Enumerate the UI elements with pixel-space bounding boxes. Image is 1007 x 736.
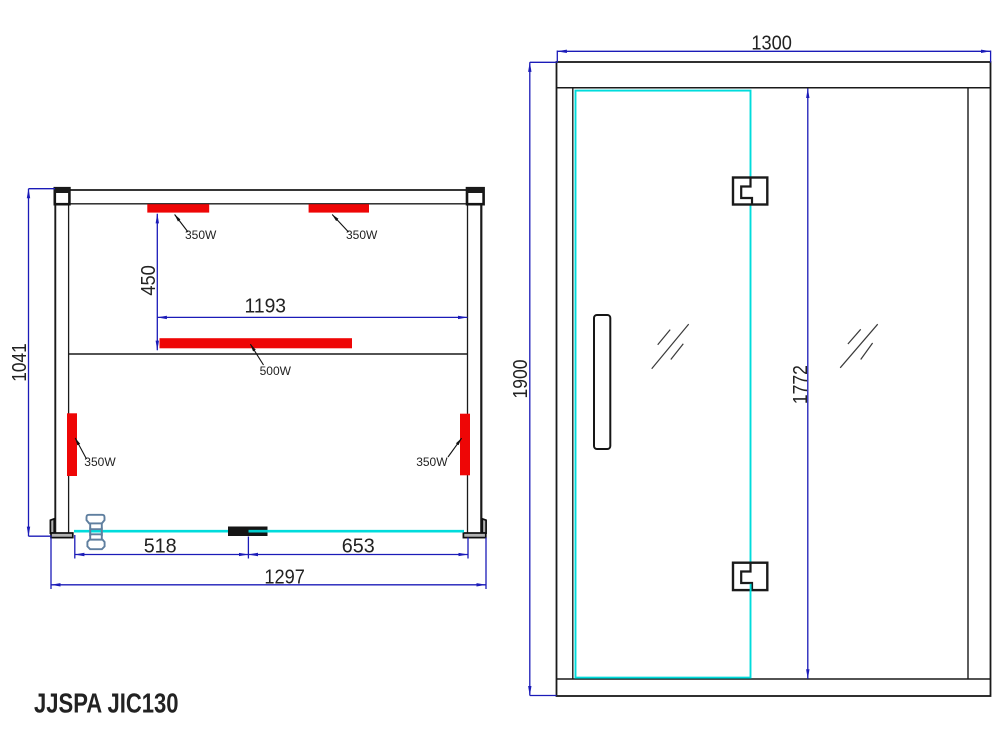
glass mark on right panel <box>840 324 878 368</box>
wire top wall outer line <box>55 189 485 191</box>
extension lines bottom dims <box>51 535 486 589</box>
corner bracket bottom-left <box>50 519 72 538</box>
door handle (front) <box>594 315 610 449</box>
dimension 1193 horizontal <box>157 316 467 318</box>
wire top band inner line <box>557 87 991 89</box>
glass mark on door <box>652 324 689 369</box>
svg-text:350W: 350W <box>185 228 217 242</box>
svg-text:1297: 1297 <box>264 566 305 588</box>
svg-text:350W: 350W <box>416 455 448 469</box>
glass front cyan line (plan) <box>74 530 464 533</box>
svg-text:1772: 1772 <box>790 365 812 404</box>
dimension 450 vertical <box>156 214 158 350</box>
leader 350W left-wall <box>75 438 86 459</box>
wire right wall inner line <box>967 88 969 679</box>
svg-text:350W: 350W <box>84 455 116 469</box>
heater 350W top-right bar <box>309 204 369 212</box>
corner post top-left <box>54 187 70 204</box>
heater 350W left-wall bar <box>67 413 77 476</box>
svg-text:1900: 1900 <box>510 360 532 399</box>
leader 500W <box>250 344 263 365</box>
wire mid divider line <box>69 353 468 355</box>
corner post top-right <box>466 187 484 204</box>
wire right wall inner line <box>467 204 469 533</box>
wire right wall outer line <box>480 190 482 534</box>
leader 350W top-right <box>332 215 348 233</box>
glass line over handle <box>249 530 268 533</box>
svg-text:JJSPA JIC130: JJSPA JIC130 <box>34 688 179 719</box>
svg-text:1300: 1300 <box>751 32 792 54</box>
svg-text:1193: 1193 <box>245 296 287 318</box>
heater 350W right-wall bar <box>460 414 470 476</box>
svg-text:350W: 350W <box>346 228 378 242</box>
hinge top <box>733 178 767 205</box>
svg-text:518: 518 <box>144 535 177 557</box>
svg-text:653: 653 <box>342 535 375 557</box>
dimension 518 horizontal <box>75 554 249 556</box>
dimension 1772 vertical <box>807 89 809 679</box>
dimension 1300 horizontal <box>557 51 990 63</box>
dimension 1900 vertical <box>530 62 557 695</box>
dimension 1297 horizontal <box>51 584 486 586</box>
corner bracket bottom-right <box>463 519 486 538</box>
cabinet outer frame <box>557 62 991 696</box>
handle knob spool (plan) <box>87 515 105 549</box>
wire left wall inner line <box>572 88 574 679</box>
wire left wall inner line <box>68 204 70 533</box>
wire left wall outer line <box>54 190 56 534</box>
door handle bar (plan, black) <box>228 527 268 537</box>
glass door outline (cyan) <box>576 91 751 678</box>
svg-text:1041: 1041 <box>9 343 31 382</box>
dimension 1041 vertical <box>29 189 56 537</box>
heater 500W mid bar <box>160 338 353 348</box>
dimension 653 horizontal <box>248 554 468 556</box>
leader 350W right-wall <box>448 438 462 457</box>
leader 350W top-left <box>175 215 188 233</box>
heater 350W top-left bar <box>147 204 209 212</box>
hinge bottom <box>733 563 767 592</box>
wire top wall inner line <box>69 203 468 205</box>
wire bottom band inner line <box>557 678 991 680</box>
svg-text:450: 450 <box>138 265 160 296</box>
svg-text:500W: 500W <box>260 364 292 378</box>
spool neck strokes over glass <box>90 528 102 537</box>
